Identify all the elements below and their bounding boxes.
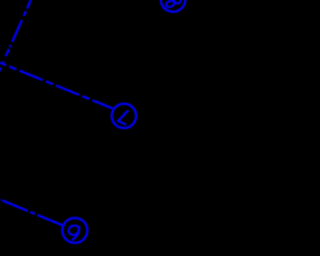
node balloon label 6 (rotated 180, reads as 9) [67, 224, 80, 240]
wire centerline L1 (dash-dot, upper left) [0, 0, 31, 72]
wire centerline L3 leader to balloon 6 [2, 200, 63, 225]
node balloon circle 6 [62, 218, 87, 243]
node dot at left edge of L3 [0, 199, 2, 201]
node balloon circle 8 (cut by top edge) [161, 0, 186, 12]
node balloon label 7 (rotated 180) [118, 111, 127, 124]
node balloon circle 7 [112, 104, 136, 128]
node balloon label 8 (rotated 180) [165, 0, 181, 8]
wire centerline L2 leader to balloon 7 [0, 63, 112, 109]
